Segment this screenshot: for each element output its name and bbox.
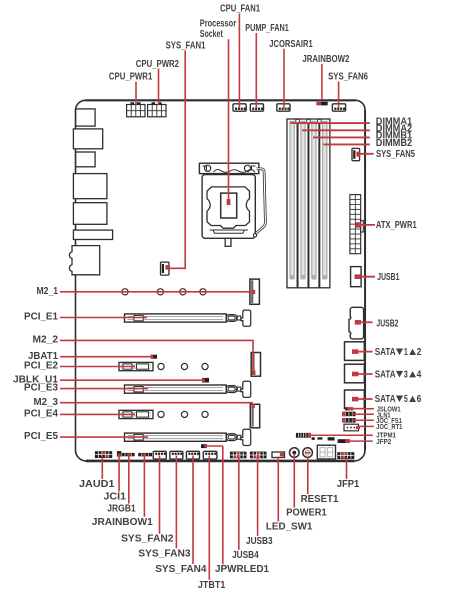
svg-text:DIMMB2: DIMMB2 bbox=[376, 138, 413, 149]
svg-text:SYS_FAN6: SYS_FAN6 bbox=[328, 72, 368, 83]
svg-text:5: 5 bbox=[404, 394, 408, 405]
svg-text:1: 1 bbox=[404, 347, 408, 358]
svg-text:JUSB3: JUSB3 bbox=[246, 535, 273, 547]
svg-text:JFP2: JFP2 bbox=[376, 437, 391, 446]
svg-text:PUMP_FAN1: PUMP_FAN1 bbox=[245, 23, 289, 34]
svg-text:PCI_E1: PCI_E1 bbox=[24, 312, 58, 323]
svg-text:3: 3 bbox=[404, 369, 408, 380]
svg-text:SYS_FAN1: SYS_FAN1 bbox=[166, 40, 206, 51]
svg-text:Socket: Socket bbox=[200, 29, 223, 40]
svg-text:LED_SW1: LED_SW1 bbox=[266, 521, 313, 533]
svg-text:SATA: SATA bbox=[375, 347, 396, 358]
svg-text:SYS_FAN4: SYS_FAN4 bbox=[155, 563, 206, 575]
svg-text:PCI_E5: PCI_E5 bbox=[24, 431, 58, 442]
svg-text:CPU_FAN1: CPU_FAN1 bbox=[220, 4, 260, 15]
svg-text:JCI1: JCI1 bbox=[104, 491, 127, 503]
svg-text:SYS_FAN2: SYS_FAN2 bbox=[121, 533, 174, 545]
svg-text:6: 6 bbox=[417, 394, 422, 405]
svg-text:JOC_RT1: JOC_RT1 bbox=[376, 422, 402, 431]
svg-text:M2_3: M2_3 bbox=[34, 397, 59, 408]
svg-text:JUSB1: JUSB1 bbox=[377, 272, 399, 283]
svg-text:JCORSAIR1: JCORSAIR1 bbox=[269, 39, 313, 50]
svg-text:JRAINBOW2: JRAINBOW2 bbox=[302, 54, 349, 65]
svg-text:4: 4 bbox=[417, 369, 422, 380]
svg-text:ATX_PWR1: ATX_PWR1 bbox=[376, 220, 417, 231]
svg-text:JRAINBOW1: JRAINBOW1 bbox=[92, 516, 153, 528]
svg-text:SYS_FAN5: SYS_FAN5 bbox=[376, 149, 415, 160]
svg-text:SATA: SATA bbox=[375, 369, 396, 380]
svg-text:JAUD1: JAUD1 bbox=[79, 478, 115, 490]
svg-text:M2_2: M2_2 bbox=[33, 335, 59, 346]
svg-text:PCI_E2: PCI_E2 bbox=[24, 361, 58, 372]
svg-text:JPWRLED1: JPWRLED1 bbox=[215, 563, 269, 575]
svg-text:PCI_E4: PCI_E4 bbox=[24, 409, 58, 420]
svg-text:PCI_E3: PCI_E3 bbox=[24, 383, 58, 394]
svg-text:2: 2 bbox=[417, 347, 422, 358]
svg-text:RESET1: RESET1 bbox=[301, 493, 339, 505]
svg-text:SYS_FAN3: SYS_FAN3 bbox=[138, 547, 191, 559]
svg-text:JUSB4: JUSB4 bbox=[232, 549, 259, 561]
svg-text:JFP1: JFP1 bbox=[337, 478, 360, 490]
svg-text:JUSB2: JUSB2 bbox=[376, 318, 398, 329]
svg-text:CPU_PWR1: CPU_PWR1 bbox=[109, 71, 153, 82]
svg-text:JTBT1: JTBT1 bbox=[198, 579, 226, 591]
svg-text:POWER1: POWER1 bbox=[286, 507, 327, 519]
svg-text:M2_1: M2_1 bbox=[37, 286, 59, 297]
svg-text:CPU_PWR2: CPU_PWR2 bbox=[136, 59, 180, 70]
svg-text:JRGB1: JRGB1 bbox=[107, 503, 136, 515]
svg-text:Processor: Processor bbox=[200, 19, 236, 30]
